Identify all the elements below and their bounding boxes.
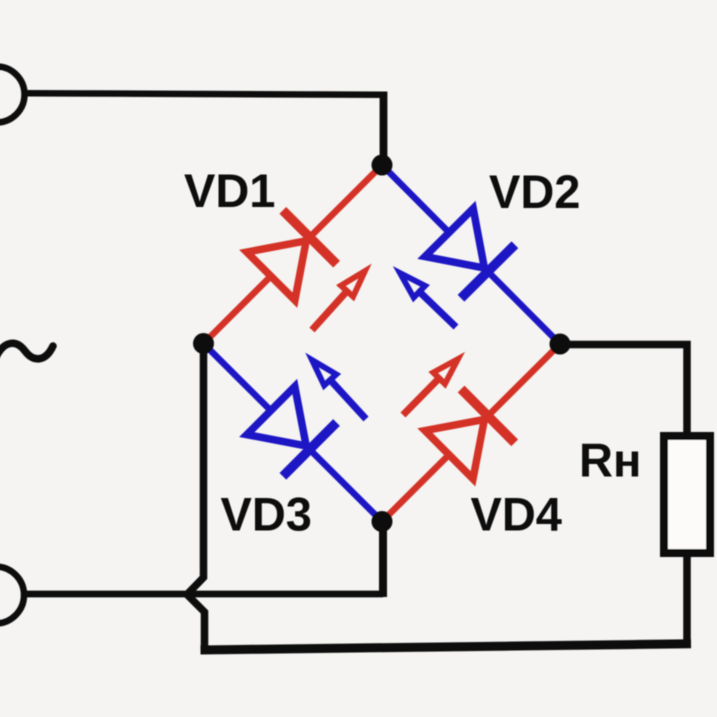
AC terminal 1 (top left) xyxy=(0,67,25,123)
current arrow (VD4) xyxy=(403,359,458,415)
svg-text:VD3: VD3 xyxy=(221,488,312,541)
svg-text:VD1: VD1 xyxy=(184,164,275,217)
diode VD2 xyxy=(382,165,560,344)
junction node: bottom xyxy=(372,511,393,532)
svg-text:VD2: VD2 xyxy=(489,165,580,218)
resistor Rн (load) xyxy=(664,436,710,553)
current arrow (VD3) xyxy=(312,360,366,419)
AC source ~ symbol xyxy=(0,343,53,359)
diode VD4 xyxy=(382,344,560,522)
wire: right node to load resistor xyxy=(560,345,687,437)
wire: terminal 2 to bottom node xyxy=(26,591,383,598)
junction node: right xyxy=(550,334,571,355)
current arrow (VD2) xyxy=(400,273,456,327)
wire: left node down with crossover jog to bottom rail xyxy=(187,344,205,648)
svg-text:VD4: VD4 xyxy=(471,488,562,541)
diode VD3 xyxy=(204,344,383,522)
current arrow (VD1) xyxy=(312,271,365,330)
wire: terminal 1 to top node xyxy=(27,93,384,95)
junction node: top xyxy=(372,155,393,176)
wire: bottom rail to load xyxy=(201,644,692,650)
diode VD1 xyxy=(204,165,383,344)
junction node: left xyxy=(193,333,214,354)
wire: load resistor bottom to rail xyxy=(683,553,691,646)
AC terminal 2 (bottom left) xyxy=(0,567,24,624)
svg-text:Rн: Rн xyxy=(579,434,641,487)
